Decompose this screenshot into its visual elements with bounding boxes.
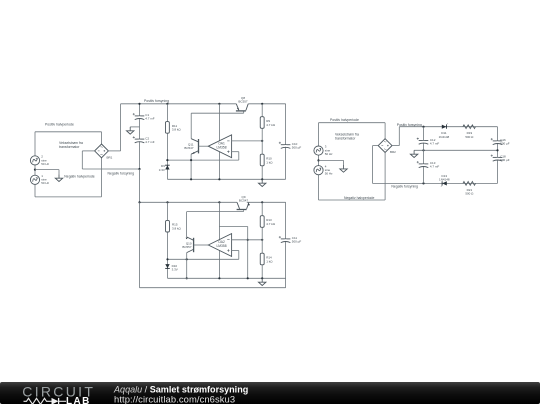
svg-text:500 Ω: 500 Ω: [465, 135, 474, 139]
svg-text:LM358: LM358: [216, 145, 226, 149]
svg-text:1N4148: 1N4148: [439, 135, 450, 139]
svg-text:transformator: transformator: [59, 145, 80, 149]
svg-text:1N4148: 1N4148: [439, 178, 450, 182]
svg-text:50 Hz: 50 Hz: [41, 181, 49, 185]
svg-text:500 µF: 500 µF: [500, 142, 510, 146]
svg-text:transformator: transformator: [335, 137, 356, 141]
svg-text:500 µF: 500 µF: [500, 158, 510, 162]
svg-text:1 kΩ: 1 kΩ: [266, 160, 273, 164]
svg-text:BC547: BC547: [239, 198, 249, 202]
svg-text:500 µF: 500 µF: [292, 146, 302, 150]
svg-text:BC547: BC547: [184, 146, 194, 150]
svg-text:50 Hz: 50 Hz: [325, 152, 333, 156]
svg-text:4.7 kΩ: 4.7 kΩ: [266, 222, 276, 226]
svg-text:BR1: BR1: [107, 155, 113, 159]
svg-text:4.7 mF: 4.7 mF: [145, 140, 155, 144]
svg-text:Negativ forsyning: Negativ forsyning: [108, 171, 135, 175]
svg-text:3.3V: 3.3V: [159, 168, 165, 172]
svg-text:BC557: BC557: [182, 245, 192, 249]
svg-text:500 µF: 500 µF: [292, 240, 302, 244]
svg-text:4.7 mF: 4.7 mF: [430, 165, 440, 169]
svg-text:1 kΩ: 1 kΩ: [266, 259, 273, 263]
svg-text:http://circuitlab.com/cn6sku3: http://circuitlab.com/cn6sku3: [114, 393, 235, 404]
svg-text:Negativ forsyning: Negativ forsyning: [391, 184, 418, 188]
svg-text:Negativ halvperiode: Negativ halvperiode: [344, 196, 374, 200]
svg-text:BC557: BC557: [238, 100, 248, 104]
svg-text:50 Hz: 50 Hz: [325, 172, 333, 176]
svg-text:Negativ halvperiode: Negativ halvperiode: [64, 175, 94, 179]
svg-text:4.7 mF: 4.7 mF: [145, 117, 155, 121]
svg-text:LM358: LM358: [216, 244, 226, 248]
svg-text:3.8 kΩ: 3.8 kΩ: [172, 226, 182, 230]
svg-text:BR2: BR2: [390, 150, 396, 154]
svg-text:4.7 mF: 4.7 mF: [430, 141, 440, 145]
svg-text:Positiv halvperiode: Positiv halvperiode: [330, 118, 359, 122]
svg-text:3.8 kΩ: 3.8 kΩ: [172, 128, 182, 132]
svg-text:50 Hz: 50 Hz: [41, 162, 49, 166]
svg-text:500 Ω: 500 Ω: [465, 192, 474, 196]
svg-text:3.3V: 3.3V: [172, 268, 178, 272]
svg-text:Positiv halvperiode: Positiv halvperiode: [45, 123, 74, 127]
svg-text:4.7 kΩ: 4.7 kΩ: [266, 123, 276, 127]
svg-text:LAB: LAB: [66, 395, 91, 404]
svg-text:Positiv forsyning: Positiv forsyning: [144, 99, 169, 103]
